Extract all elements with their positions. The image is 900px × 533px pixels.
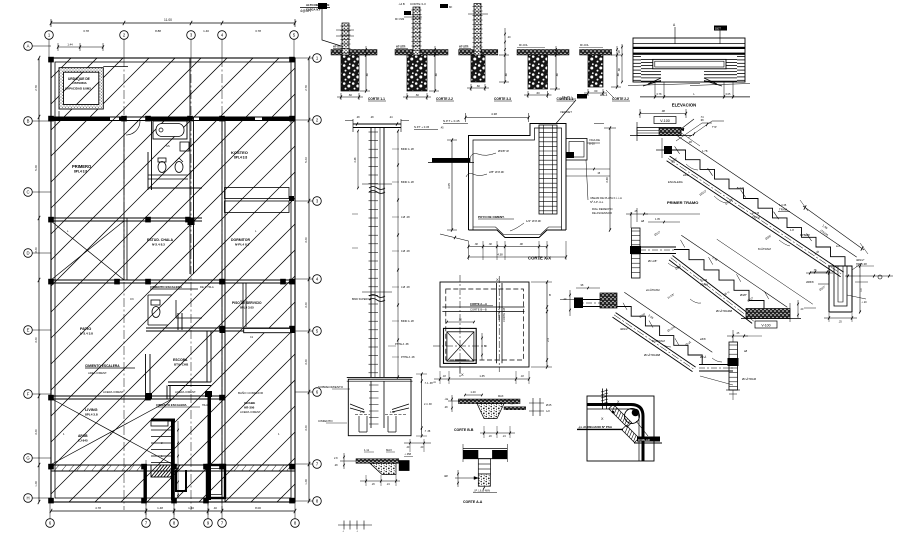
svg-text:Ø3/8" Ø: Ø3/8" Ø bbox=[498, 149, 509, 153]
stair core wall mid thick bbox=[171, 419, 175, 500]
svg-text:.90: .90 bbox=[458, 319, 462, 322]
svg-text:⊥.058: ⊥.058 bbox=[404, 452, 412, 456]
svg-text:.80: .80 bbox=[616, 73, 620, 77]
corte X-X top dim bbox=[466, 117, 529, 119]
svg-text:3.05: 3.05 bbox=[447, 183, 451, 189]
svg-text:.38: .38 bbox=[474, 243, 478, 246]
svg-text:ALTO DE SOBRE: ALTO DE SOBRE bbox=[306, 3, 329, 7]
interior wall y218 bbox=[51, 217, 202, 219]
interior wall x124 vertical bbox=[123, 117, 125, 280]
stair 2 slab bbox=[673, 256, 756, 320]
svg-text:8PL4 3.8: 8PL4 3.8 bbox=[74, 170, 87, 174]
svg-text:RIAL DERECHO: RIAL DERECHO bbox=[592, 207, 613, 211]
svg-text:3.78: 3.78 bbox=[255, 29, 261, 33]
svg-text:Ø.05: Ø.05 bbox=[546, 404, 552, 407]
corte A-A top slab bbox=[463, 448, 507, 450]
svg-text:CAPACIDAD 8.8M3: CAPACIDAD 8.8M3 bbox=[65, 87, 91, 91]
interior wall y327 right bbox=[146, 327, 295, 329]
svg-text:PHTE A .38: PHTE A .38 bbox=[395, 342, 409, 346]
footing section CORTE 1-1 bbox=[331, 50, 377, 56]
svg-text:4Ø1/2": 4Ø1/2" bbox=[620, 327, 628, 331]
footing plan right dim bbox=[546, 282, 548, 367]
stair 1 start cluster dims bbox=[688, 121, 712, 138]
svg-text:4.38: 4.38 bbox=[491, 112, 497, 116]
svg-text:8.00: 8.00 bbox=[255, 506, 261, 510]
svg-text:.8×1/8: .8×1/8 bbox=[736, 186, 744, 190]
svg-text:HT-STR: HT-STR bbox=[396, 45, 406, 49]
second bath walls bbox=[148, 294, 172, 296]
column detail shaft bbox=[370, 128, 372, 378]
svg-text:ESCALERA: ESCALERA bbox=[668, 180, 683, 184]
svg-text:DE 2. HILA: DE 2. HILA bbox=[200, 285, 214, 289]
svg-text:1.35: 1.35 bbox=[479, 374, 485, 378]
svg-text:2Ø3/8: 2Ø3/8 bbox=[806, 280, 814, 284]
svg-text:CORTE A-A: CORTE A-A bbox=[463, 500, 483, 504]
svg-text:4 Ø .28: 4 Ø .28 bbox=[401, 285, 410, 289]
elevation lintel recess bbox=[653, 59, 726, 68]
footing plan outer bbox=[440, 282, 529, 367]
svg-text:⊥A: ⊥A bbox=[432, 380, 436, 384]
svg-text:Ø3/8": Ø3/8" bbox=[740, 293, 747, 297]
interior wall y396 left bbox=[51, 395, 222, 397]
svg-text:MAX: MAX bbox=[498, 395, 504, 398]
svg-text:BIND SUPERIOR: BIND SUPERIOR bbox=[352, 298, 372, 301]
interior wall x243 vertical bbox=[242, 283, 244, 327]
svg-text:8PL4 3.8: 8PL4 3.8 bbox=[234, 156, 247, 160]
column detail footing dashes bbox=[355, 414, 370, 416]
svg-text:C3: C3 bbox=[240, 299, 244, 303]
svg-text:5.43: 5.43 bbox=[304, 157, 308, 163]
footing plan dashed bbox=[446, 289, 524, 360]
stair 3 long dim bbox=[624, 292, 712, 352]
svg-text:CORTE B-B: CORTE B-B bbox=[454, 428, 474, 432]
interior wall x222 vertical bbox=[221, 117, 223, 502]
column detail ties bbox=[369, 132, 379, 373]
svg-text:CORTE A-A: CORTE A-A bbox=[497, 306, 501, 320]
corte A-A column bbox=[478, 459, 490, 474]
stair 1 bottom dim cluster bbox=[806, 272, 833, 274]
elevation wing lines bbox=[648, 78, 661, 84]
footing plan bottom dim bbox=[434, 378, 529, 380]
svg-text:HZØ×.08: HZØ×.08 bbox=[856, 262, 867, 266]
corte X-X right box bbox=[566, 139, 587, 161]
stair 3 leader arcs bbox=[660, 343, 671, 347]
column blobs bbox=[48, 116, 54, 122]
stair section 1 long dim B bbox=[803, 206, 864, 250]
footing section CORTE 3-3 bbox=[459, 50, 498, 56]
svg-text:KOSTEO: KOSTEO bbox=[231, 150, 248, 155]
svg-text:0.78: 0.78 bbox=[657, 93, 662, 96]
second bath toilet bbox=[152, 307, 160, 318]
svg-text:N.P.T: N.P.T bbox=[510, 403, 516, 406]
svg-text:1.40: 1.40 bbox=[203, 29, 209, 33]
svg-text:1.0: 1.0 bbox=[860, 288, 863, 292]
svg-text:4 Ø .28: 4 Ø .28 bbox=[401, 215, 410, 219]
svg-text:0.05: 0.05 bbox=[726, 93, 731, 96]
corte X-X left dim bbox=[451, 140, 453, 230]
corte X-X top-right leader bbox=[556, 100, 576, 124]
svg-text:SOBRECIMIENTO: SOBRECIMIENTO bbox=[318, 385, 344, 389]
corner detail right label bbox=[637, 437, 660, 442]
stair 3 landing bbox=[699, 364, 733, 366]
footing edge left cluster bbox=[340, 460, 356, 462]
footing 3 extra dims bbox=[504, 28, 506, 46]
stair 3 steps bbox=[617, 307, 702, 365]
V-100 beam hatch arrow bbox=[681, 119, 694, 129]
grid centerline B bbox=[190, 58, 192, 510]
svg-text:1.11: 1.11 bbox=[364, 448, 370, 452]
svg-text:.60: .60 bbox=[348, 93, 352, 97]
svg-text:1.48: 1.48 bbox=[360, 411, 365, 414]
svg-text:1.48: 1.48 bbox=[304, 479, 308, 485]
svg-text:∆.8: ∆.8 bbox=[836, 244, 840, 248]
grid centerline F bbox=[207, 460, 209, 515]
svg-text:CIMIENTO ESCALERA: CIMIENTO ESCALERA bbox=[85, 364, 120, 368]
svg-text:3.40: 3.40 bbox=[304, 425, 308, 431]
svg-text:.80: .80 bbox=[434, 73, 438, 77]
stair dim ticks mid bbox=[177, 421, 179, 498]
column detail right dims bbox=[397, 131, 399, 377]
stair 2 steps bbox=[674, 250, 764, 311]
elevation side blocks bbox=[641, 58, 653, 60]
svg-text:M²: M² bbox=[449, 5, 452, 9]
svg-text:HT-STR: HT-STR bbox=[333, 45, 343, 49]
svg-text:V-100: V-100 bbox=[761, 324, 770, 328]
stair 3 landing dim bbox=[700, 376, 733, 385]
corner detail diagonal bar 1 bbox=[609, 404, 632, 427]
footing plan col dim bbox=[447, 321, 474, 323]
svg-text:3.40: 3.40 bbox=[304, 237, 308, 243]
cistern corner bracket bbox=[59, 111, 65, 117]
svg-text:NºPL4 8.3: NºPL4 8.3 bbox=[235, 243, 250, 247]
right dimension line bbox=[308, 58, 310, 502]
svg-text:V-100: V-100 bbox=[660, 119, 670, 123]
footing plan column bbox=[444, 328, 477, 363]
svg-text:ø3/8: ø3/8 bbox=[683, 173, 689, 177]
svg-text:CIMIENTO: CIMIENTO bbox=[318, 419, 333, 423]
svg-text:3.38: 3.38 bbox=[605, 177, 609, 183]
svg-text:D: D bbox=[26, 251, 29, 256]
stair 2 leader arcs bbox=[668, 263, 679, 268]
corte X-X top slab bar bbox=[432, 158, 470, 163]
grid centerline C bbox=[221, 58, 223, 510]
corte B-B bottom dim bbox=[480, 432, 515, 434]
svg-text:.28: .28 bbox=[618, 50, 621, 54]
svg-text:CORTE 3-3: CORTE 3-3 bbox=[494, 97, 511, 101]
svg-text:⊥L AURELIANO Nº PSA: ⊥L AURELIANO Nº PSA bbox=[578, 425, 613, 429]
svg-text:SS: SS bbox=[166, 144, 170, 148]
bath lower shelf bbox=[148, 174, 188, 176]
svg-text:HT-STR: HT-STR bbox=[459, 45, 469, 49]
svg-text:ESTUD. CHALA: ESTUD. CHALA bbox=[147, 238, 174, 242]
svg-text:BIND A .28: BIND A .28 bbox=[401, 180, 414, 184]
svg-text:PISO DE SERVICIO: PISO DE SERVICIO bbox=[232, 301, 262, 305]
svg-text:.80: .80 bbox=[555, 73, 559, 77]
svg-text:CORTE A—A: CORTE A—A bbox=[470, 302, 487, 306]
svg-text:F: F bbox=[27, 392, 30, 397]
svg-text:1.40: 1.40 bbox=[188, 506, 194, 510]
interior wall y117 bbox=[51, 116, 295, 118]
stair 1 U-column end bbox=[829, 266, 852, 312]
corner detail bar circle bbox=[625, 409, 640, 424]
corte B-B top dim bbox=[465, 394, 482, 396]
svg-text:1.48: 1.48 bbox=[34, 481, 38, 487]
corte X-X small right dims bbox=[594, 123, 604, 125]
svg-text:8.88: 8.88 bbox=[155, 29, 161, 33]
svg-text:EJ-845: EJ-845 bbox=[78, 439, 88, 443]
svg-text:Ø¼1/8": Ø¼1/8" bbox=[648, 259, 657, 263]
footing section CORTE 2-2 b bbox=[580, 50, 612, 56]
svg-text:HILA: HILA bbox=[202, 403, 208, 407]
stair 3 slab bbox=[616, 313, 696, 368]
svg-text:2.4: 2.4 bbox=[546, 338, 550, 342]
svg-text:.60: .60 bbox=[594, 89, 598, 93]
svg-text:VIGA DE: VIGA DE bbox=[589, 138, 600, 142]
svg-text:1.8: 1.8 bbox=[790, 228, 794, 232]
svg-text:BAÑO COMEDOR: BAÑO COMEDOR bbox=[238, 390, 264, 395]
svg-text:X: X bbox=[496, 277, 499, 282]
column detail right footing dim bbox=[421, 374, 423, 436]
svg-text:.45: .45 bbox=[440, 127, 444, 130]
svg-text:PRIMER TRAMO: PRIMER TRAMO bbox=[667, 200, 698, 205]
svg-text:CIMIENTO ESCALERA: CIMIENTO ESCALERA bbox=[156, 403, 187, 407]
svg-text:2.78: 2.78 bbox=[304, 85, 308, 91]
svg-text:POYO DE CIMENT.: POYO DE CIMENT. bbox=[478, 215, 505, 219]
svg-text:1.05: 1.05 bbox=[655, 218, 660, 221]
svg-text:Δ A-4: Δ A-4 bbox=[600, 93, 608, 97]
svg-text:ELEVACION: ELEVACION bbox=[672, 103, 696, 108]
svg-text:TRAM: TRAM bbox=[700, 283, 709, 287]
svg-text:ESCOBA: ESCOBA bbox=[173, 358, 188, 362]
stair 3 left dims bbox=[569, 290, 571, 316]
svg-text:1/2" Ø 8.3F: 1/2" Ø 8.3F bbox=[526, 219, 541, 223]
svg-text:TRAM: TRAM bbox=[779, 208, 788, 212]
bathtub bbox=[153, 121, 187, 139]
svg-text:G: G bbox=[26, 456, 29, 461]
svg-text:.28: .28 bbox=[334, 464, 338, 467]
left dimension line bbox=[38, 58, 40, 502]
column detail top beam bbox=[353, 123, 401, 125]
svg-text:LIVING: LIVING bbox=[85, 408, 98, 412]
toilet bbox=[158, 162, 166, 173]
cistern box top-left bbox=[61, 70, 101, 107]
svg-text:4.38: 4.38 bbox=[497, 253, 503, 257]
svg-text:B: B bbox=[27, 119, 30, 124]
svg-text:HR-306: HR-306 bbox=[244, 406, 255, 410]
svg-text:∆.8: ∆.8 bbox=[546, 410, 550, 413]
escoba room walls bbox=[206, 331, 208, 382]
stair 2 V-100 label bbox=[755, 321, 777, 328]
svg-text:5.48: 5.48 bbox=[34, 165, 38, 171]
corte B-B right bar bbox=[504, 407, 526, 410]
column detail footing funnels bbox=[350, 404, 364, 410]
stair lower right U box bbox=[207, 465, 225, 498]
corte X-X floor bbox=[469, 230, 567, 238]
stair 3 column top dim bbox=[732, 330, 734, 342]
sink box bbox=[180, 142, 189, 151]
svg-text:∆8: ∆8 bbox=[641, 219, 645, 223]
column detail footing pedestal bbox=[358, 416, 360, 432]
footing section CORTE 2-2 bbox=[395, 50, 448, 56]
column detail left dim bbox=[357, 131, 359, 188]
V-100 label box bbox=[654, 117, 676, 124]
grid centerline D bbox=[145, 460, 147, 515]
footing plan center lines bbox=[459, 275, 461, 378]
interior wall x190 vertical bbox=[189, 58, 191, 218]
closet shelves right room bbox=[225, 188, 290, 199]
elevation top bands bbox=[633, 47, 745, 49]
elevation bottom dims bbox=[654, 82, 656, 98]
svg-text:CORTE B—B: CORTE B—B bbox=[470, 308, 487, 312]
svg-text:VER DET: VER DET bbox=[560, 110, 572, 114]
svg-text:Nº2.4 8.3: Nº2.4 8.3 bbox=[152, 243, 165, 247]
svg-text:1.48: 1.48 bbox=[390, 411, 395, 414]
svg-text:.28: .28 bbox=[370, 116, 374, 119]
svg-text:Nº A P⊥LL: Nº A P⊥LL bbox=[590, 200, 604, 204]
interior wall x148 bath bbox=[147, 152, 149, 190]
cross brace lower-left bbox=[52, 399, 172, 464]
svg-text:⊥.20: ⊥.20 bbox=[861, 300, 867, 304]
svg-text:.80: .80 bbox=[504, 73, 508, 77]
svg-text:.98: .98 bbox=[519, 243, 523, 246]
wall bar right of escoba bbox=[244, 328, 292, 332]
stair section 1 long dim ticks bbox=[675, 146, 812, 241]
svg-text:M²-COL: M²-COL bbox=[519, 44, 528, 47]
corte X-X ladder bbox=[539, 125, 557, 214]
top dimension line bbox=[51, 22, 295, 24]
svg-text:AREA CIMENT.: AREA CIMENT. bbox=[88, 371, 107, 375]
svg-text:X: X bbox=[461, 372, 464, 377]
svg-text:ACERA CIMENT.: ACERA CIMENT. bbox=[175, 390, 196, 394]
svg-text:11.00: 11.00 bbox=[164, 18, 172, 22]
footing 3 top labels bbox=[440, 4, 448, 8]
corte B-B left cluster bbox=[448, 400, 458, 402]
svg-text:GRABE: GRABE bbox=[244, 401, 255, 405]
bath door gap arc bbox=[126, 121, 140, 135]
svg-text:3.78: 3.78 bbox=[83, 29, 89, 33]
corte B-B funnel bbox=[477, 404, 504, 419]
corner detail thick L bbox=[587, 405, 643, 462]
svg-text:CORTE 2-2: CORTE 2-2 bbox=[436, 97, 453, 101]
footing edge right block bbox=[399, 460, 410, 471]
floor plan diagonal hatch bbox=[0, 58, 721, 502]
misc bottom-left ticks bbox=[338, 524, 372, 526]
svg-text:3.40: 3.40 bbox=[34, 337, 38, 343]
stair section 1 steps bbox=[671, 150, 845, 266]
svg-text:DORMITOR: DORMITOR bbox=[231, 238, 250, 242]
svg-text:PATIO: PATIO bbox=[80, 326, 91, 331]
floor plan outer wall bbox=[51, 58, 295, 502]
stair 2 landing bbox=[640, 246, 676, 248]
svg-text:∆8: ∆8 bbox=[744, 349, 748, 353]
svg-text:3.40: 3.40 bbox=[304, 359, 308, 365]
svg-text:TA-25⊥: TA-25⊥ bbox=[562, 95, 573, 99]
corte A-A leader bbox=[455, 477, 478, 479]
interior wall y280 bbox=[51, 279, 295, 281]
corte B-B right symbol bbox=[529, 402, 544, 404]
stair 2 right dims bbox=[797, 300, 799, 318]
corner detail outer bbox=[587, 396, 654, 461]
footing 1 anchor wire bbox=[322, 8, 341, 46]
stair 3 wall column bbox=[729, 342, 738, 390]
stair landing bar bbox=[151, 421, 168, 426]
interior band wall y465 bbox=[51, 464, 295, 466]
footing 1 column ties bbox=[336, 29, 354, 31]
grid centerline E bbox=[173, 460, 175, 515]
svg-text:M² CSM: M² CSM bbox=[395, 18, 404, 21]
svg-text:3.40: 3.40 bbox=[34, 429, 38, 435]
svg-text:C: C bbox=[26, 190, 29, 195]
svg-text:CORTE 1-1: CORTE 1-1 bbox=[368, 97, 385, 101]
svg-text:DOBLAR: DOBLAR bbox=[638, 438, 650, 442]
svg-text:M²-COL: M²-COL bbox=[580, 44, 589, 47]
svg-text:4 Ø .28: 4 Ø .28 bbox=[401, 249, 410, 253]
grid centerline A bbox=[123, 58, 125, 510]
corte X-X outline inner bbox=[473, 128, 562, 230]
svg-text:TYP: TYP bbox=[712, 126, 717, 129]
svg-text:E: E bbox=[27, 328, 30, 333]
svg-text:.24: .24 bbox=[389, 116, 393, 119]
stair 2 wall column bbox=[632, 228, 641, 278]
stair 1 U-column top dim bbox=[810, 271, 830, 273]
elevation left dim bbox=[621, 44, 623, 82]
stair 2 top dims bbox=[630, 212, 632, 228]
svg-text:2.4 .38: 2.4 .38 bbox=[424, 403, 432, 406]
svg-text:BIND A .28: BIND A .28 bbox=[401, 147, 414, 151]
svg-text:DE ASCENSOR: DE ASCENSOR bbox=[592, 211, 612, 215]
svg-text:H: H bbox=[26, 496, 29, 501]
corner detail diagonal bar 2 bbox=[622, 425, 639, 442]
top grid bubbles bbox=[45, 31, 54, 40]
svg-text:N.P.T + 0.45: N.P.T + 0.45 bbox=[443, 119, 460, 123]
svg-text:2.48: 2.48 bbox=[354, 157, 357, 162]
stair 1 leader arcs bbox=[686, 164, 698, 170]
column detail footing shaft bbox=[370, 381, 372, 428]
stair core wall left bbox=[144, 464, 147, 500]
svg-text:.80: .80 bbox=[365, 73, 369, 77]
svg-text:.40: .40 bbox=[213, 506, 217, 510]
V-100 beam dim bbox=[640, 113, 686, 115]
stair section 1 slab bbox=[670, 156, 844, 272]
top secondary dim bbox=[58, 46, 103, 48]
svg-text:8-C.B: 8-C.B bbox=[700, 278, 707, 282]
footing edge funnel bbox=[370, 463, 396, 474]
svg-text:BTV+CHB: BTV+CHB bbox=[174, 363, 189, 367]
V-100 beam bar bbox=[637, 128, 681, 136]
svg-text:.60: .60 bbox=[415, 93, 419, 97]
bottom dimension line bbox=[51, 510, 295, 512]
footing plan h-strip bbox=[442, 306, 524, 308]
corte X-X bottom dims bbox=[469, 246, 548, 248]
corner detail top hatch strip bbox=[602, 389, 604, 410]
svg-text:.28: .28 bbox=[688, 140, 692, 144]
svg-text:1.44: 1.44 bbox=[67, 43, 73, 47]
elevation lower blocks bbox=[641, 71, 661, 73]
svg-text:PHTE A .28: PHTE A .28 bbox=[401, 355, 415, 359]
svg-text:⊥E: ⊥E bbox=[444, 397, 448, 401]
svg-text:B: B bbox=[484, 344, 486, 348]
stair treads plan bbox=[151, 430, 171, 463]
footing edge bottom dim bbox=[360, 480, 400, 482]
svg-text:CORTE 3-3: CORTE 3-3 bbox=[410, 2, 426, 6]
elevation outer bbox=[633, 38, 745, 82]
elevation top markers bbox=[674, 27, 676, 44]
svg-text:CORTE X-X: CORTE X-X bbox=[528, 256, 551, 261]
svg-text:AFOB: AFOB bbox=[78, 434, 88, 438]
svg-text:⊥Δ B: ⊥Δ B bbox=[398, 2, 405, 6]
bidet bbox=[175, 162, 183, 173]
svg-text:A: A bbox=[27, 44, 30, 49]
